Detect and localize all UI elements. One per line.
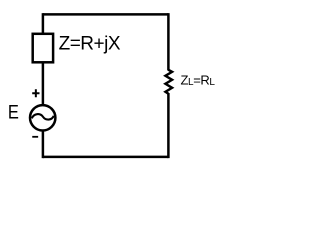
plus sign	[32, 89, 39, 97]
wire right vertical upper (top-right corner to resistor)	[167, 13, 170, 70]
svg-text:E: E	[8, 102, 19, 123]
wire top horizontal	[43, 13, 168, 16]
resistor ZL zigzag	[165, 70, 172, 94]
svg-text:ZL=RL: ZL=RL	[181, 72, 216, 88]
wire right vertical lower (resistor to bottom-right corner)	[167, 93, 170, 158]
wire source to bottom-left corner	[42, 130, 45, 158]
AC source E circle	[30, 105, 55, 130]
minus sign	[32, 136, 38, 138]
wire bottom horizontal	[43, 156, 168, 159]
sine wave inside source	[32, 114, 54, 119]
wire box to source	[42, 63, 45, 107]
wire left vertical upper (box to top-left corner)	[42, 13, 45, 35]
impedance box Z	[33, 34, 53, 63]
svg-text:Z=R+jX: Z=R+jX	[59, 34, 121, 55]
